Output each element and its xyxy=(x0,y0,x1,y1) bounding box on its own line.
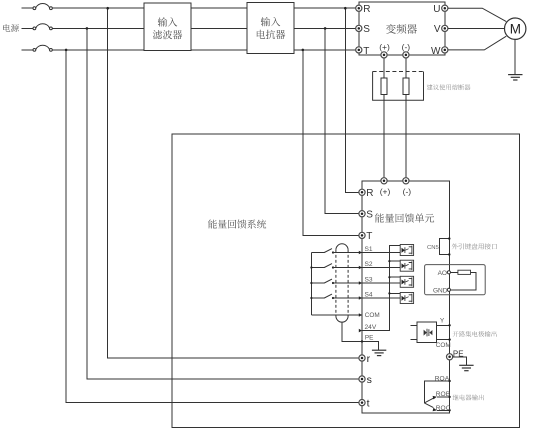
svg-text:U: U xyxy=(433,4,440,15)
label 继电器输出 (relay output) xyxy=(453,395,484,401)
terminal t (unit bypass) xyxy=(359,400,365,406)
svg-text:ROB: ROB xyxy=(436,391,451,398)
label 能量回馈单元 xyxy=(375,213,434,222)
contact dot switch K3 xyxy=(332,282,334,284)
resistor R (AO load) xyxy=(458,270,471,274)
svg-text:(-): (-) xyxy=(403,187,412,197)
junction Y at unit edge xyxy=(448,324,450,326)
terminal PE (unit) xyxy=(447,354,453,360)
terminal s (unit bypass) xyxy=(359,376,365,382)
svg-text:t: t xyxy=(367,398,370,410)
terminal T (inverter) xyxy=(356,47,362,53)
label 滤波器 (filter line2) xyxy=(153,30,182,39)
ground (motor) xyxy=(508,75,522,80)
connector CN5 xyxy=(439,239,449,255)
label 开路集电极输出 (open collector output) xyxy=(453,331,497,337)
svg-text:s: s xyxy=(367,374,372,386)
svg-text:ROC: ROC xyxy=(436,405,451,412)
svg-text:GND: GND xyxy=(433,287,448,294)
terminal (-) (inverter) xyxy=(403,52,409,58)
breaker phase 1 xyxy=(33,4,52,10)
junction bus/K2 xyxy=(310,266,312,268)
svg-text:S1: S1 xyxy=(365,246,373,253)
wire tap phase1 to terminal r xyxy=(108,8,359,358)
svg-text:V: V xyxy=(434,24,441,35)
svg-text:CN5: CN5 xyxy=(427,245,440,251)
wire S2 to unit xyxy=(333,267,400,269)
optocoupler U2 xyxy=(400,245,413,256)
wire bus pin optocoupler U5 xyxy=(389,292,400,294)
optocoupler U4 xyxy=(400,276,413,287)
contact dot switch K2 xyxy=(332,266,334,268)
wire bus pin optocoupler U4 xyxy=(389,276,400,278)
junction bus/U5 xyxy=(388,292,390,294)
junction phase2/S-tap xyxy=(324,27,327,30)
terminal R (unit) xyxy=(359,189,365,195)
relay contact arm to ROB xyxy=(424,398,433,403)
wire tap phase2 to terminal s xyxy=(87,28,359,379)
svg-text:COM: COM xyxy=(365,312,380,319)
terminal V (inverter) xyxy=(442,25,448,31)
label 变频器 (inverter) xyxy=(386,24,417,34)
wire switch common bus xyxy=(310,253,312,316)
terminal U (inverter) xyxy=(442,5,448,11)
svg-text:R: R xyxy=(366,188,373,199)
svg-text:S3: S3 xyxy=(365,277,373,284)
terminal arrow S1 xyxy=(359,251,362,255)
svg-text:W: W xyxy=(431,46,441,57)
svg-text:S4: S4 xyxy=(365,292,373,299)
ground (PE shield) xyxy=(372,350,386,355)
optocoupler U3 xyxy=(400,260,413,271)
wire V to motor xyxy=(448,27,505,29)
terminal arrow S3 xyxy=(359,281,362,285)
junction phase3/T-tap xyxy=(302,49,305,52)
wire S3 to unit xyxy=(333,282,400,284)
switch K2 (input S2) xyxy=(311,264,332,268)
fuse F1 on (+) xyxy=(381,78,387,95)
svg-text:r: r xyxy=(367,353,371,365)
wire ROC xyxy=(437,409,450,411)
terminal arrow S4 xyxy=(359,296,362,300)
ground (PE) xyxy=(459,365,473,370)
svg-text:T: T xyxy=(363,46,369,57)
wire tap phase1 to unit terminal R xyxy=(345,8,358,192)
wire tap phase3 to unit terminal T xyxy=(303,50,359,236)
terminal S (unit) xyxy=(359,211,365,217)
svg-text:T: T xyxy=(366,231,372,242)
input reactor box 输入电抗器 xyxy=(247,3,294,54)
box energy feedback system (outer) xyxy=(172,134,520,428)
wire bus pin optocoupler U3 xyxy=(389,260,400,262)
terminal (+) (inverter) xyxy=(381,52,387,58)
svg-text:COM: COM xyxy=(436,342,451,349)
wire tap phase3 to terminal t xyxy=(66,50,359,403)
svg-text:M: M xyxy=(510,22,521,37)
optocoupler U5 xyxy=(400,293,413,304)
switch K4 (input S4) xyxy=(311,294,332,298)
terminal arrow S2 xyxy=(359,266,362,270)
terminal GND xyxy=(447,288,450,291)
motor M xyxy=(505,18,526,39)
breaker phase 3 xyxy=(33,45,52,51)
inverter box 变频器 U1 xyxy=(359,2,445,55)
wire tap phase2 to unit terminal S xyxy=(325,28,359,213)
svg-text:PE: PE xyxy=(365,335,374,342)
wire (+) DC bus down to unit xyxy=(383,55,385,181)
relay contact arm to ROC xyxy=(424,403,433,408)
junction ROC at unit edge xyxy=(448,409,450,411)
terminal arrow 24V xyxy=(359,329,362,333)
input filter box 输入滤波器 xyxy=(144,3,191,51)
terminal R (inverter) xyxy=(356,5,362,11)
wire 24V to optocoupler bus xyxy=(362,245,400,330)
wire AO to resistor to GND xyxy=(450,272,476,290)
label 外引键盘用接口 (external keypad port) xyxy=(452,243,497,249)
label 电抗器 (reactor line2) xyxy=(257,30,285,39)
wire phase line 3 (T phase) xyxy=(22,49,356,51)
recommended fuse box (dashed top) xyxy=(373,72,424,101)
svg-text:24V: 24V xyxy=(365,324,377,331)
terminal S (inverter) xyxy=(356,25,362,31)
junction CN5 bottom xyxy=(448,253,450,255)
label 输入 (reactor line1) xyxy=(261,17,281,26)
terminal T (unit) xyxy=(359,232,365,238)
svg-text:S: S xyxy=(366,210,373,221)
wire (-) DC bus down to unit xyxy=(405,55,407,181)
junction ROA at unit edge xyxy=(448,380,450,382)
svg-text:(-): (-) xyxy=(402,42,411,52)
wire phase line 2 (S phase) xyxy=(22,27,356,29)
wire COM from switch bus to unit xyxy=(311,314,362,316)
junction bus/K3 xyxy=(310,282,312,284)
contact dot switch K4 xyxy=(332,297,334,299)
svg-text:Y: Y xyxy=(440,317,445,324)
junction phase2/s-tap xyxy=(86,27,89,30)
svg-text:(+): (+) xyxy=(380,187,391,197)
svg-text:ROA: ROA xyxy=(435,375,450,382)
svg-text:S: S xyxy=(363,24,370,35)
junction phase1/r-tap xyxy=(106,7,109,10)
junction ROB at unit edge xyxy=(448,396,450,398)
wire S4 to unit xyxy=(333,297,400,299)
analog output box (AO/GND) xyxy=(425,265,486,295)
svg-text:(+): (+) xyxy=(379,42,390,52)
label 建议使用熔断器 (recommend fuse) xyxy=(427,84,471,90)
wire motor to ground xyxy=(514,39,516,74)
wire shield to PE xyxy=(342,322,379,350)
junction bus/K4 xyxy=(310,297,312,299)
switch K1 (input S1) xyxy=(311,249,332,253)
wire ROA xyxy=(424,381,449,403)
junction COM at unit edge xyxy=(448,338,450,340)
optocoupler U6 (Y output) xyxy=(411,322,450,343)
label 电源 (power source) xyxy=(3,24,19,32)
terminal AO xyxy=(447,271,450,274)
shielded cable symbol (capsule) xyxy=(336,244,348,322)
contact dot switch K1 xyxy=(332,251,334,253)
terminal (+) (unit) xyxy=(381,178,387,184)
terminal (-) (unit) xyxy=(403,178,409,184)
terminal W (inverter) xyxy=(442,47,448,53)
breaker phase 2 xyxy=(33,24,52,30)
svg-text:S2: S2 xyxy=(365,261,373,268)
wire ROB xyxy=(437,396,450,398)
fuse F2 on (-) xyxy=(403,78,409,95)
wire phase line 1 (R phase) xyxy=(22,7,356,9)
wire W to motor xyxy=(448,36,506,50)
junction phase3/t-tap xyxy=(65,49,68,52)
junction shield/PE at unit edge xyxy=(361,340,363,342)
wire S1 to unit xyxy=(333,252,400,254)
switch K3 (input S3) xyxy=(311,279,332,283)
junction bus/U3 xyxy=(388,260,390,262)
junction bus/U4 xyxy=(388,276,390,278)
wire PE to ground xyxy=(453,357,467,365)
label 能量回馈系统 xyxy=(208,220,266,229)
junction phase1/R-tap xyxy=(344,7,347,10)
label 输入 (filter line1) xyxy=(158,17,178,26)
svg-text:R: R xyxy=(363,4,370,15)
box energy feedback unit 能量回馈单元 xyxy=(362,181,450,413)
terminal r (unit bypass) xyxy=(359,355,365,361)
junction CN5 top xyxy=(448,237,450,239)
terminal arrow COM xyxy=(359,313,362,317)
svg-text:AO: AO xyxy=(438,270,447,277)
wire U to motor xyxy=(448,8,506,21)
